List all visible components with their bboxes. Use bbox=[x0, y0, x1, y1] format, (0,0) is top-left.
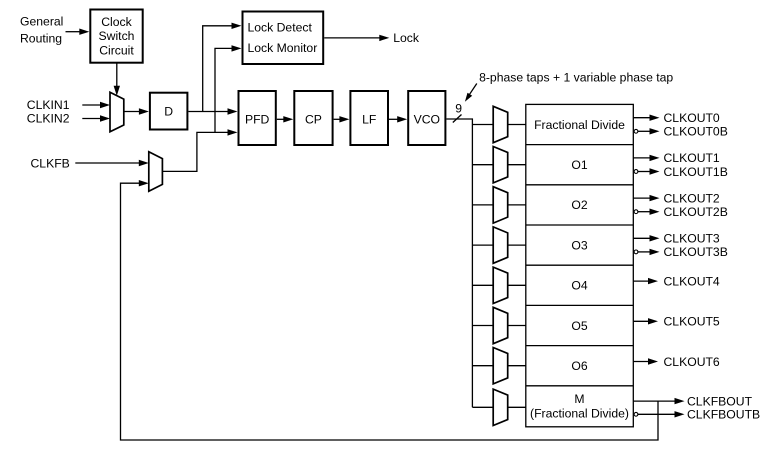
svg-text:Switch: Switch bbox=[99, 29, 135, 43]
bus width slash bbox=[453, 115, 462, 123]
wire CLKOUT2B output bbox=[637, 209, 659, 215]
wire input mux to D bbox=[124, 108, 149, 114]
wire D to PFD bbox=[188, 108, 237, 114]
wire bus to mux O5 bbox=[472, 325, 493, 327]
svg-text:O6: O6 bbox=[571, 359, 587, 373]
divider row separator 4 bbox=[526, 264, 634, 266]
wire bus to mux O4 bbox=[472, 284, 493, 286]
inverter bubble CLKOUT0B bbox=[634, 129, 638, 133]
inverter bubble CLKOUT2B bbox=[634, 210, 638, 214]
block D divider bbox=[150, 93, 188, 130]
svg-text:9: 9 bbox=[455, 102, 462, 116]
svg-text:CLKOUT0B: CLKOUT0B bbox=[664, 125, 728, 139]
wire mux O1 to divider bbox=[508, 164, 526, 166]
wire CLKOUT1 output bbox=[633, 155, 659, 161]
block Lock Detect / Lock Monitor bbox=[243, 12, 324, 65]
svg-text:LF: LF bbox=[362, 113, 376, 127]
svg-text:Fractional Divide: Fractional Divide bbox=[534, 118, 625, 132]
inverter bubble CLKOUT3B bbox=[634, 250, 638, 254]
wire mux Fractional Divide to divider bbox=[508, 124, 526, 126]
svg-text:PFD: PFD bbox=[245, 113, 270, 127]
svg-text:CLKOUT1B: CLKOUT1B bbox=[664, 165, 728, 179]
svg-text:O1: O1 bbox=[571, 158, 587, 172]
svg-text:CLKFB: CLKFB bbox=[31, 156, 70, 170]
svg-text:Clock: Clock bbox=[101, 15, 132, 29]
svg-text:CLKOUT2: CLKOUT2 bbox=[664, 191, 720, 205]
svg-text:CLKOUT2B: CLKOUT2B bbox=[664, 205, 728, 219]
label General Routing bbox=[20, 14, 63, 45]
mux phase select O2 bbox=[493, 187, 508, 223]
svg-text:VCO: VCO bbox=[414, 113, 440, 127]
svg-text:CLKIN1: CLKIN1 bbox=[27, 98, 70, 112]
svg-text:CP: CP bbox=[305, 113, 322, 127]
svg-text:CLKOUT5: CLKOUT5 bbox=[664, 315, 720, 329]
block CP bbox=[294, 91, 332, 145]
wire mux O2 to divider bbox=[508, 204, 526, 206]
wire PFD to CP bbox=[277, 116, 294, 122]
annotation arrow to bus bbox=[465, 84, 477, 102]
wire CLKOUT3B output bbox=[637, 249, 659, 255]
mux input clock select bbox=[110, 92, 124, 132]
wire mux M to divider bbox=[508, 406, 526, 408]
svg-text:M: M bbox=[574, 392, 584, 406]
wire General Routing to Clock Switch Circuit bbox=[66, 29, 90, 35]
svg-text:CLKFBOUT: CLKFBOUT bbox=[687, 394, 753, 408]
svg-text:CLKOUT3B: CLKOUT3B bbox=[664, 245, 728, 259]
mux phase select O6 bbox=[493, 348, 508, 384]
wire feedback loop CLKFBOUT to feedback mux bbox=[121, 180, 659, 440]
wire VCO output phase-tap bus bbox=[446, 119, 472, 407]
divider row separator 5 bbox=[526, 304, 634, 306]
wire mux O5 to divider bbox=[508, 325, 526, 327]
svg-text:CLKFBOUTB: CLKFBOUTB bbox=[687, 408, 760, 422]
svg-text:CLKOUT4: CLKOUT4 bbox=[664, 274, 720, 288]
block output counters/dividers O0-O6 and M bbox=[526, 104, 634, 426]
wire CLKFBOUTB output bbox=[637, 411, 684, 417]
svg-text:CLKIN2: CLKIN2 bbox=[27, 112, 70, 126]
mux phase select O1 bbox=[493, 147, 508, 183]
divider row separator 3 bbox=[526, 224, 634, 226]
wire bus to mux O2 bbox=[472, 204, 493, 206]
inverter bubble CLKOUT1B bbox=[634, 170, 638, 174]
wire CLKOUT0B output bbox=[637, 128, 659, 134]
wire CLKOUT1B output bbox=[637, 168, 659, 174]
wire CLKFB to feedback mux bbox=[75, 160, 149, 166]
divider row separator 7 bbox=[526, 385, 634, 387]
wire LF to VCO bbox=[389, 116, 407, 122]
mux phase select O5 bbox=[493, 307, 508, 343]
wire bus to mux O1 bbox=[472, 164, 493, 166]
divider row separator 2 bbox=[526, 184, 634, 186]
wire bus to mux O3 bbox=[472, 244, 493, 246]
block LF bbox=[350, 91, 388, 145]
svg-text:8-phase taps + 1 variable phas: 8-phase taps + 1 variable phase tap bbox=[479, 71, 673, 85]
svg-text:CLKOUT0: CLKOUT0 bbox=[664, 111, 720, 125]
wire D output to Lock Detect bbox=[203, 23, 242, 112]
svg-text:O4: O4 bbox=[571, 279, 587, 293]
mux feedback select bbox=[149, 152, 163, 191]
wire mux O4 to divider bbox=[508, 284, 526, 286]
wire CLKOUT0 output bbox=[633, 115, 659, 121]
svg-text:Circuit: Circuit bbox=[99, 44, 134, 58]
svg-text:General: General bbox=[20, 14, 63, 28]
svg-text:CLKOUT3: CLKOUT3 bbox=[664, 232, 720, 246]
wire CLKOUT3 output bbox=[633, 235, 659, 241]
wire CLKOUT2 output bbox=[633, 195, 659, 201]
svg-text:Lock Detect: Lock Detect bbox=[248, 21, 313, 35]
block VCO bbox=[408, 91, 445, 145]
wire CP to LF bbox=[334, 116, 350, 122]
wire mux O3 to divider bbox=[508, 244, 526, 246]
divider row separator 1 bbox=[526, 144, 634, 146]
svg-text:O2: O2 bbox=[571, 198, 587, 212]
svg-text:O5: O5 bbox=[571, 319, 587, 333]
svg-text:Lock: Lock bbox=[393, 31, 420, 45]
wire CLKFBOUT output bbox=[633, 398, 684, 404]
svg-text:Routing: Routing bbox=[20, 31, 62, 45]
wire CLKOUT5 output bbox=[633, 318, 658, 324]
mux phase select O3 bbox=[493, 227, 508, 263]
wire CLKOUT6 output bbox=[633, 358, 658, 364]
svg-text:(Fractional Divide): (Fractional Divide) bbox=[530, 407, 629, 421]
wire bus to mux M bbox=[472, 406, 493, 408]
svg-text:CLKOUT6: CLKOUT6 bbox=[664, 355, 720, 369]
wire CLKOUT4 output bbox=[633, 278, 658, 284]
inverter bubble CLKFBOUTB bbox=[634, 412, 638, 416]
mux phase select M bbox=[493, 389, 508, 425]
divider row separator 6 bbox=[526, 345, 634, 347]
label divider M bbox=[530, 392, 629, 421]
block PFD bbox=[239, 91, 276, 145]
wire Clock Switch Circuit to input mux bbox=[114, 63, 120, 96]
svg-text:O3: O3 bbox=[571, 238, 587, 252]
mux phase select O4 bbox=[493, 267, 508, 303]
wire bus to mux Fractional Divide bbox=[472, 124, 493, 126]
svg-text:CLKOUT1: CLKOUT1 bbox=[664, 151, 720, 165]
wire feedback clock to Lock Monitor bbox=[215, 45, 242, 132]
svg-text:D: D bbox=[164, 104, 173, 118]
wire mux O6 to divider bbox=[508, 365, 526, 367]
wire bus to mux O6 bbox=[472, 365, 493, 367]
block Clock Switch Circuit bbox=[90, 10, 142, 63]
wire CLKIN2 to input mux bbox=[82, 115, 110, 121]
wire feedback mux to PFD bbox=[162, 129, 237, 171]
mux phase select Fractional Divide bbox=[493, 106, 508, 142]
wire CLKIN1 to input mux bbox=[82, 102, 110, 108]
svg-text:Lock Monitor: Lock Monitor bbox=[248, 41, 318, 55]
wire Lock output bbox=[324, 35, 389, 41]
